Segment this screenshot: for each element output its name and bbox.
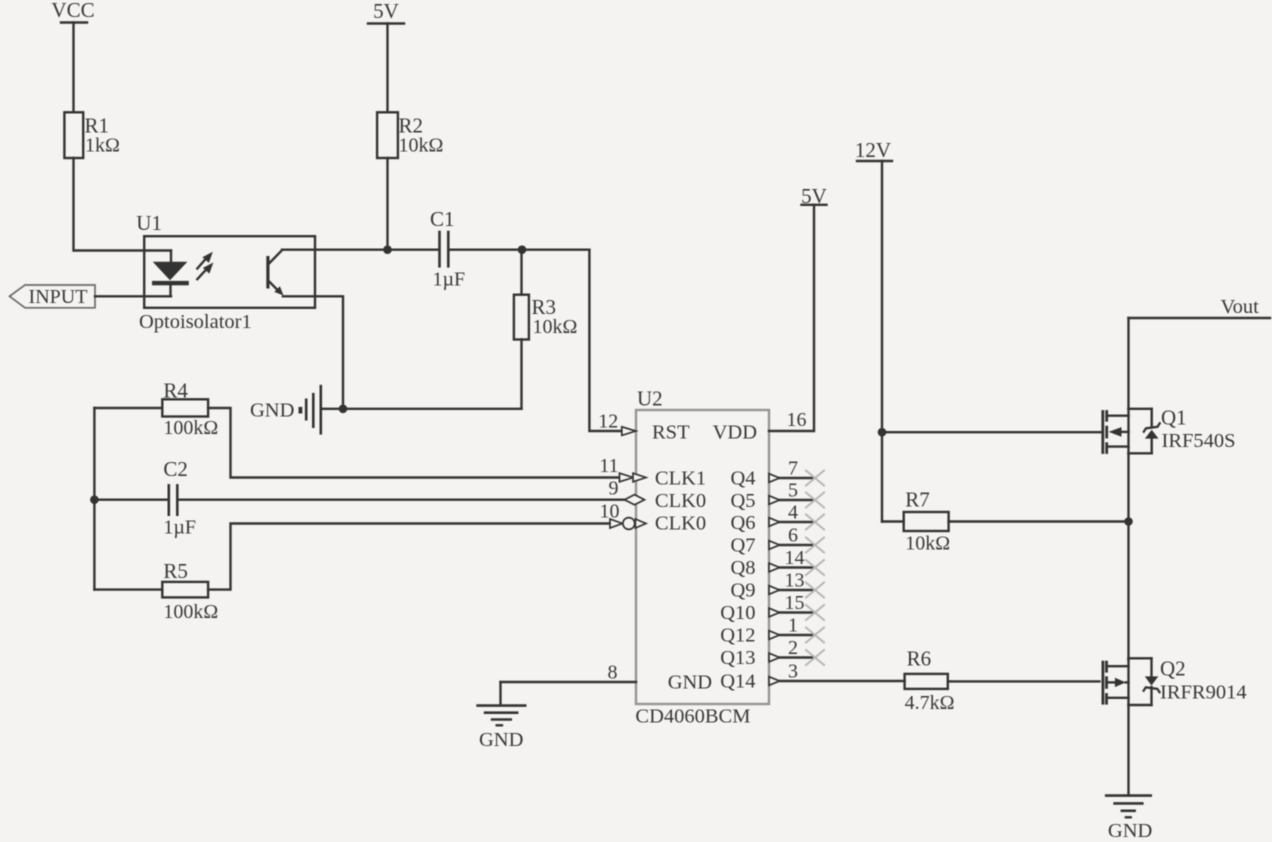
svg-text:10kΩ: 10kΩ xyxy=(905,533,950,555)
pin 11 CLK1 double chevron xyxy=(599,455,646,482)
svg-text:VDD: VDD xyxy=(713,422,757,444)
svg-text:Q5: Q5 xyxy=(730,490,755,512)
wire R2 to junction xyxy=(386,158,388,250)
svg-text:3: 3 xyxy=(788,661,798,683)
wire Q14 to R6 xyxy=(780,680,905,682)
svg-text:100kΩ: 100kΩ xyxy=(163,417,218,439)
svg-text:15: 15 xyxy=(785,592,805,614)
pin 10 CLK0 circle chevrons xyxy=(600,500,647,529)
wire left rail R4/C2/R5 xyxy=(93,408,95,590)
svg-text:5V: 5V xyxy=(373,0,399,23)
svg-text:Q9: Q9 xyxy=(730,580,755,602)
input connector INPUT xyxy=(10,285,96,308)
transistor Q2 IRFR9014 xyxy=(1103,657,1247,706)
no-connect X Q9 xyxy=(806,583,824,598)
no-connect X Q4 xyxy=(806,471,824,486)
LED light arrow 2 xyxy=(197,263,213,280)
node junction C2 left xyxy=(90,495,99,504)
svg-text:Q10: Q10 xyxy=(720,602,755,624)
wire phototransistor collector to C1 xyxy=(282,248,439,250)
svg-text:CD4060BCM: CD4060BCM xyxy=(635,706,750,728)
svg-text:U1: U1 xyxy=(136,211,162,235)
resistor R2 xyxy=(377,112,443,158)
resistor R5 xyxy=(94,559,218,623)
LED inside U1 xyxy=(152,251,189,297)
svg-text:IRFR9014: IRFR9014 xyxy=(1160,682,1247,704)
resistor R3 xyxy=(514,250,577,409)
transistor Q1 IRF540S xyxy=(1103,406,1236,454)
LED light arrow 1 xyxy=(197,252,213,269)
ground GND below Q2 xyxy=(1106,796,1152,842)
wire Vout down to Q1 drain xyxy=(1127,318,1129,409)
no-connect X Q7 xyxy=(806,538,824,553)
wire Vout xyxy=(1129,296,1271,318)
pin Q12 triangle wire 1 xyxy=(769,615,815,640)
resistor R4 xyxy=(94,379,218,440)
svg-text:12V: 12V xyxy=(855,138,891,162)
node junction C1/R3/RST xyxy=(518,245,527,254)
svg-text:C1: C1 xyxy=(430,207,455,231)
pin Q4 triangle wire 7 xyxy=(769,458,815,483)
svg-text:10kΩ: 10kΩ xyxy=(533,316,578,338)
phototransistor inside U1 xyxy=(266,250,283,295)
svg-text:CLK1: CLK1 xyxy=(655,468,706,490)
power flag VCC xyxy=(51,0,94,23)
svg-text:13: 13 xyxy=(785,570,805,592)
wire R7 to source node xyxy=(949,520,1129,522)
wire 5V to VDD pin 16 xyxy=(769,205,814,431)
svg-text:Q1: Q1 xyxy=(1161,406,1187,430)
no-connect X Q13 xyxy=(806,650,824,665)
svg-text:Optoisolator1: Optoisolator1 xyxy=(139,311,252,333)
wire 12V down to R7 xyxy=(881,161,883,522)
wire R4 to U2 CLK1 pin 11 xyxy=(208,408,619,478)
no-connect X Q5 xyxy=(806,493,824,508)
svg-text:GND: GND xyxy=(250,400,294,422)
wire junction to Q1 gate xyxy=(882,431,1102,433)
pin Q10 triangle wire 15 xyxy=(769,592,815,617)
svg-text:Vout: Vout xyxy=(1221,296,1260,318)
wire R5 to U2 CLK0 pin 10 xyxy=(208,524,610,590)
pin Q8 triangle wire 14 xyxy=(769,547,815,572)
resistor R6 xyxy=(905,647,955,715)
svg-text:R5: R5 xyxy=(163,559,188,583)
svg-text:CLK0: CLK0 xyxy=(655,513,706,535)
svg-text:Q8: Q8 xyxy=(730,557,755,579)
pin Q6 triangle wire 4 xyxy=(769,502,815,527)
svg-text:4: 4 xyxy=(788,502,798,524)
node junction R7/Q1 source/Q2 drain xyxy=(1124,517,1133,526)
svg-text:6: 6 xyxy=(788,525,798,547)
svg-text:GND: GND xyxy=(668,672,712,694)
no-connect X Q6 xyxy=(806,515,824,530)
svg-text:7: 7 xyxy=(788,458,798,480)
node junction R2/collector xyxy=(383,245,392,254)
svg-text:R4: R4 xyxy=(163,379,188,403)
wire node to U2 RST pin 12 xyxy=(589,250,621,431)
capacitor C1 xyxy=(430,207,465,291)
svg-text:RST: RST xyxy=(652,422,690,444)
svg-text:8: 8 xyxy=(608,662,618,684)
wire GND rail xyxy=(343,408,522,410)
wire C1 to junction node xyxy=(448,248,589,250)
svg-text:VCC: VCC xyxy=(51,0,94,22)
svg-text:16: 16 xyxy=(787,409,807,431)
no-connect X Q10 xyxy=(806,605,824,620)
U2 internal pin names xyxy=(652,422,757,694)
svg-text:Q14: Q14 xyxy=(720,671,755,693)
no-connect X Q12 xyxy=(806,628,824,643)
svg-text:100kΩ: 100kΩ xyxy=(163,601,218,623)
svg-text:GND: GND xyxy=(1108,820,1152,842)
resistor R1 xyxy=(64,112,119,158)
pin Q13 triangle wire 2 xyxy=(769,637,815,662)
wire C2 to U2 CLK0 pin 9 xyxy=(177,499,624,501)
svg-text:Q6: Q6 xyxy=(730,512,755,534)
svg-text:R7: R7 xyxy=(905,488,930,512)
node junction emitter/GND xyxy=(339,405,348,414)
svg-text:2: 2 xyxy=(788,637,798,659)
svg-text:1kΩ: 1kΩ xyxy=(85,135,120,157)
svg-text:11: 11 xyxy=(599,455,618,477)
pin Q14 triangle pin 3 xyxy=(769,661,798,686)
pin 12 RST input triangle xyxy=(598,411,636,436)
svg-text:10kΩ: 10kΩ xyxy=(399,135,444,157)
pin Q7 triangle wire 6 xyxy=(769,525,815,550)
svg-text:U2: U2 xyxy=(637,387,663,411)
svg-text:Q7: Q7 xyxy=(730,535,755,557)
svg-text:Q4: Q4 xyxy=(730,468,755,490)
power flag 5V (VDD) xyxy=(801,184,827,208)
svg-text:IRF540S: IRF540S xyxy=(1162,430,1236,452)
svg-text:10: 10 xyxy=(600,500,620,522)
svg-text:R6: R6 xyxy=(907,647,932,671)
pin Q9 triangle wire 13 xyxy=(769,570,815,595)
svg-text:CLK0: CLK0 xyxy=(655,490,706,512)
wire R6 to Q2 gate xyxy=(948,680,1100,682)
svg-text:1µF: 1µF xyxy=(433,269,466,291)
svg-text:9: 9 xyxy=(609,477,619,499)
pin 8 GND wire xyxy=(501,662,637,706)
no-connect X Q8 xyxy=(806,560,824,575)
wire phototransistor emitter to GND rail xyxy=(283,296,343,409)
svg-text:INPUT: INPUT xyxy=(29,286,88,308)
svg-text:GND: GND xyxy=(479,729,523,751)
svg-text:12: 12 xyxy=(598,411,618,433)
power flag 12V xyxy=(855,138,892,162)
svg-text:1: 1 xyxy=(788,615,798,637)
svg-text:1µF: 1µF xyxy=(163,517,196,539)
svg-text:14: 14 xyxy=(785,547,805,569)
svg-text:5: 5 xyxy=(788,480,798,502)
wire Q2 source to ground xyxy=(1127,705,1129,795)
svg-text:4.7kΩ: 4.7kΩ xyxy=(905,692,955,714)
capacitor C2 xyxy=(94,457,196,539)
svg-text:Q12: Q12 xyxy=(720,625,755,647)
IC U2 CD4060BCM body xyxy=(635,387,769,728)
wire Q1 source to Q2 drain xyxy=(1127,453,1129,660)
node junction 12V/gate xyxy=(878,428,887,437)
ground GND below U2 xyxy=(478,706,526,751)
wire R1 to optoisolator LED anode xyxy=(74,158,172,251)
pin Q5 triangle wire 5 xyxy=(769,480,815,505)
svg-text:Q13: Q13 xyxy=(720,647,755,669)
wire 5V to R2 xyxy=(386,24,388,113)
svg-text:C2: C2 xyxy=(163,457,188,481)
pin 9 CLK0 diamond xyxy=(609,477,645,505)
wire INPUT to LED cathode xyxy=(95,295,171,297)
op-amp U1 optoisolator body xyxy=(136,211,315,333)
wire VCC to R1 xyxy=(72,23,74,113)
ground GND (sideways) xyxy=(250,386,343,433)
power flag 5V (top) xyxy=(368,0,404,24)
resistor R7 xyxy=(882,488,950,555)
svg-text:Q2: Q2 xyxy=(1160,657,1186,681)
